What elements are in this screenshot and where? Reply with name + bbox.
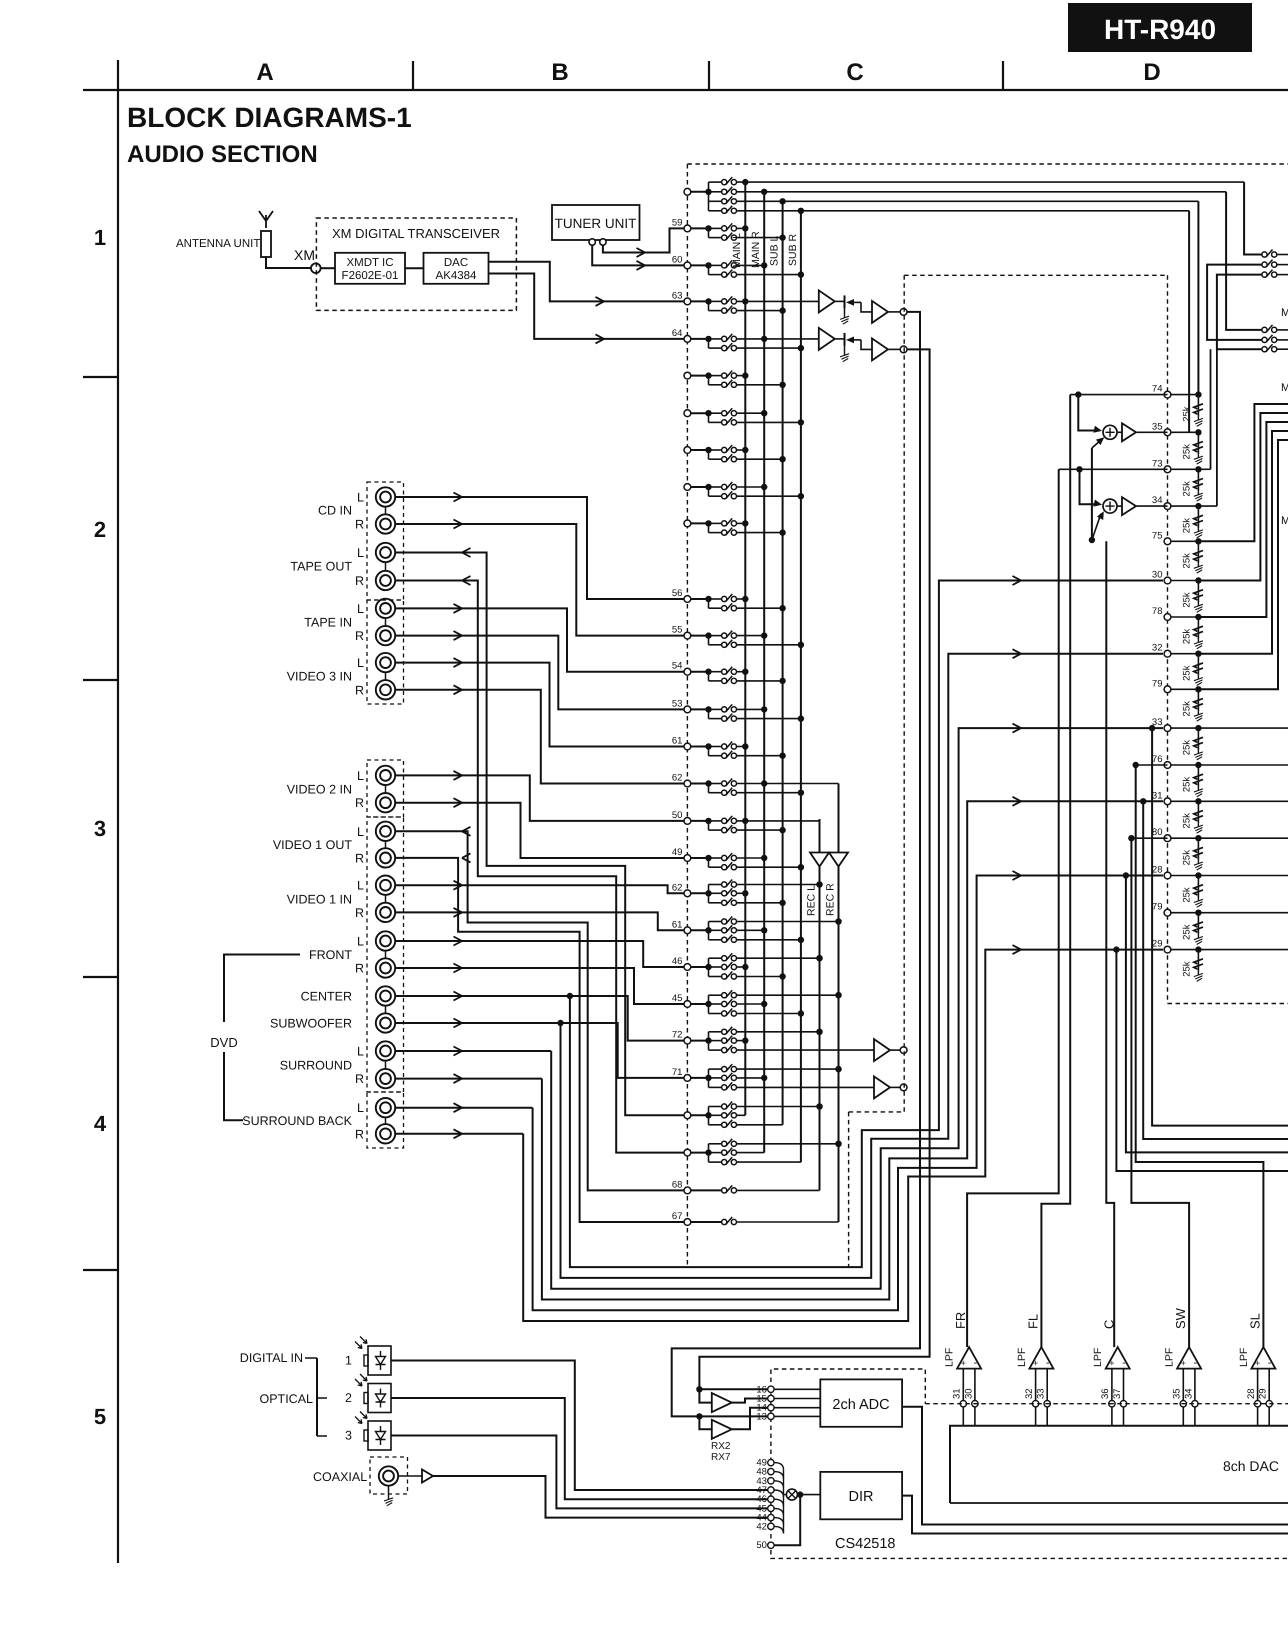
bus MAIN R [763,192,765,1153]
top line3 descent [1197,201,1199,394]
label CENTER [301,990,352,1004]
svg-text:DIGITAL IN: DIGITAL IN [240,1351,303,1365]
svg-text:L: L [357,602,364,616]
summing amp row34 input1 [1080,469,1103,506]
wire groupA row4 to right [737,208,1190,214]
wire optical3 [391,1436,768,1509]
row number 2 [94,517,106,542]
dashed box jacks SURROUND BACK [367,1092,404,1148]
wire TAPE OUT R [395,576,684,1153]
tick row 4/5 [83,1269,118,1271]
label L for jack y=497 [357,491,364,505]
selector row 71 [672,1064,874,1090]
svg-text:31: 31 [1152,790,1163,801]
jack pair link y=608.4 [385,618,387,626]
wire VIDEO3 L [395,658,684,746]
label DIGITAL IN [240,1351,303,1365]
svg-text:DIR: DIR [849,1489,874,1505]
selector row 46 [672,953,823,980]
wire row28 exit [1123,872,1288,1152]
buffer U row 64 [819,328,835,350]
svg-text:C: C [1102,1320,1117,1329]
svg-text:60: 60 [672,254,683,265]
LPF C [1092,1320,1130,1426]
label SUBWOOFER [270,1017,352,1031]
label VIDEO 3 IN [287,670,352,684]
tick row 3/4 [83,976,118,978]
svg-text:A: A [256,59,273,86]
wire SURROUND BACK L [395,1103,533,1112]
ADC pin 13 [756,1411,820,1422]
svg-text:M: M [1281,515,1288,527]
svg-text:+: + [1033,1358,1038,1368]
top line4 descent [1188,211,1190,432]
volume ladder pin 80 y=838 [1152,827,1203,870]
label R for jack y=802.7 [355,796,364,810]
selector row 72 [672,1027,874,1053]
svg-text:71: 71 [672,1067,683,1078]
svg-text:25k: 25k [1181,444,1192,460]
selector row 59 [672,217,786,240]
svg-text:73: 73 [1152,458,1163,469]
svg-text:R: R [355,683,364,697]
selector row 450 [684,445,786,462]
block TUNER UNIT [552,205,640,240]
svg-text:-: - [1046,1357,1050,1369]
DIR mix node [784,1489,821,1500]
DIR pin fan 49-42 [756,1458,783,1534]
svg-text:R: R [355,1127,364,1141]
wire DVD direct 2 [561,649,1164,1278]
svg-text:50: 50 [756,1540,767,1551]
label SURROUND BACK [242,1114,352,1128]
svg-text:L: L [357,1101,364,1115]
label REC L [806,885,818,916]
selector row tapeoutL [684,1102,823,1128]
label MAIN L [731,233,743,268]
selector row tapeoutR [684,1139,842,1165]
RCA jack TAPE OUT at y=552.5 [376,543,395,562]
wire XM node to XMDT [321,267,335,269]
label R for jack y=968 [355,962,364,976]
svg-text:35: 35 [1172,1388,1183,1399]
selector row 61 [672,736,786,759]
dashed box jacks TAPEIN/V3 [367,600,404,704]
svg-text:LPF: LPF [1238,1348,1250,1367]
svg-text:R: R [355,1072,364,1086]
svg-text:COAXIAL: COAXIAL [313,1470,367,1484]
RCA jack SUBWOOFER at y=1023 [376,1013,395,1032]
top line2 descent [1226,192,1262,330]
selector row 50 [672,810,820,833]
row number 5 [94,1404,106,1429]
svg-text:BLOCK DIAGRAMS-1: BLOCK DIAGRAMS-1 [127,102,412,133]
row34 right ext [1198,505,1217,507]
LPF FR [944,1312,982,1426]
wire row74 to FL LPF [1041,395,1070,1348]
label R for jack y=524 [355,518,364,532]
wire TAPE OUT L [395,548,684,1115]
wire groupA row3 to right [737,198,1199,204]
volume ladder pin 28 y=875 [1152,865,1203,908]
svg-text:25k: 25k [1181,518,1192,534]
selector row 63 [672,290,819,313]
volume ladder pin 35 y=432 [1152,421,1203,464]
wire XMDT to DAC [405,267,424,269]
wire g1r2 down to g2r2 [1207,265,1262,340]
svg-text:37: 37 [1112,1388,1123,1399]
wire antenna to XM node [266,257,311,268]
svg-text:DAC: DAC [444,257,468,269]
svg-text:VIDEO 2 IN: VIDEO 2 IN [287,783,352,797]
label L for jack y=831.3 [357,825,364,839]
wire DVD direct 1 [570,576,1163,1267]
svg-text:49: 49 [672,847,683,858]
svg-text:FL: FL [1025,1314,1040,1329]
label SUB R [787,233,799,266]
svg-text:1: 1 [94,225,106,250]
jack pair link y=996 [385,1006,387,1014]
column letter D [1143,59,1160,86]
svg-text:LPF: LPF [1164,1348,1176,1367]
svg-text:M: M [1281,307,1288,319]
ADC pin 14 [756,1403,820,1414]
RCA jack SURROUND BACK at y=1107.7 [376,1098,395,1117]
wire DVD direct 5 [533,871,1163,1310]
label R for jack y=580.5 [355,574,364,588]
label MAIN R [750,231,762,268]
svg-text:56: 56 [672,588,683,599]
row74 inner wire [1070,391,1167,397]
wire DVD direct 4 [542,797,1163,1300]
coax dashed box [370,1457,408,1494]
selector row 56 [672,588,786,611]
svg-text:80: 80 [1152,827,1163,838]
antenna resistor [261,231,271,257]
svg-text:36: 36 [1100,1388,1111,1399]
svg-text:25k: 25k [1181,850,1192,866]
svg-text:XM: XM [294,247,315,263]
selector row 61b [672,917,842,944]
selector right dashed edge [848,1112,850,1267]
volume ladder pin 34 y=506 [1152,495,1203,538]
ADC pin 15 [756,1394,820,1405]
selector row 45 [672,990,842,1017]
coax jack [379,1466,398,1506]
svg-text:25k: 25k [1181,665,1192,681]
label CS42518 [835,1536,895,1552]
label L for jack y=885.2 [357,879,364,893]
svg-text:1: 1 [345,1354,352,1368]
label OPTICAL [260,1392,314,1406]
svg-text:50: 50 [672,810,683,821]
label SURROUND [280,1059,352,1073]
svg-text:SW: SW [1173,1307,1188,1329]
row number 3 [94,816,106,841]
main signal vertical R [696,349,929,1392]
svg-text:-: - [1268,1357,1272,1369]
LPF SW [1164,1307,1202,1425]
volume ladder pin 79 y=912 [1152,902,1203,945]
optical jack 3 [345,1412,391,1451]
jack pair link y=497 [385,507,387,515]
tuner out pin L [589,239,595,245]
svg-text:68: 68 [672,1179,683,1190]
svg-text:VIDEO 1 OUT: VIDEO 1 OUT [273,838,353,852]
label L for jack y=775.4 [357,769,364,783]
svg-text:34: 34 [1152,495,1163,506]
dashed link selector-volume [849,1111,905,1113]
right switch group2 row2 [1262,335,1288,343]
svg-text:R: R [355,574,364,588]
jack pair link y=941 [385,951,387,959]
label R for jack y=635.6 [355,629,364,643]
svg-text:-: - [1122,1357,1126,1369]
svg-text:55: 55 [672,625,683,636]
jack pair link y=831.3 [385,841,387,849]
wire row73 to FR LPF [967,469,1059,1347]
svg-text:CENTER: CENTER [301,990,352,1004]
bus SUB L [782,201,784,1125]
label VIDEO 2 IN [287,783,352,797]
svg-text:28: 28 [1246,1388,1257,1399]
wire SURROUND L [395,1047,551,1056]
svg-text:MAIN R: MAIN R [750,231,762,268]
jack pair link y=775.4 [385,785,387,793]
wire DAC out L to row63 [489,262,685,306]
svg-text:45: 45 [672,993,683,1004]
label DVD [210,1035,237,1050]
svg-text:25k: 25k [1181,592,1192,608]
RCA jack VIDEO 3 IN at y=662.6 [376,653,395,672]
volume ladder pin 76 y=765 [1152,754,1203,797]
svg-text:M: M [1281,382,1288,394]
ladder row ext y=912 [1198,912,1288,914]
2ch ADC box [820,1379,902,1426]
wire VIDEO3 R [395,685,684,783]
svg-text:LPF: LPF [1016,1348,1028,1367]
right switch group1 row3 [1262,270,1288,278]
RCA jack R at y=524 [376,514,395,533]
svg-text:2: 2 [94,517,106,542]
label L for jack y=552.5 [357,546,364,560]
wire row29 exit [1113,946,1288,1171]
svg-text:B: B [551,59,568,86]
label 8ch DAC [1223,1458,1279,1474]
RCA jack CD IN at y=497 [376,487,395,506]
dashed box jacks V2 [367,760,404,817]
wire VIDEO1 OUT R [395,853,684,1222]
svg-text:3: 3 [345,1429,352,1443]
col tick A/B [412,61,414,90]
svg-text:CD IN: CD IN [318,504,352,518]
label RX2 RX7 [711,1441,731,1463]
svg-text:25k: 25k [1181,553,1192,569]
RCA jack R at y=857.9 [376,848,395,867]
svg-text:67: 67 [672,1211,683,1222]
svg-text:31: 31 [952,1388,963,1399]
optical jack 2 [345,1374,391,1413]
REC R buffer [829,853,848,867]
wire CD R [395,520,684,636]
buffer U row 63 [819,290,835,312]
selector row 53 [672,698,804,721]
svg-text:29: 29 [1258,1388,1269,1399]
svg-text:64: 64 [672,328,683,339]
svg-text:SURROUND BACK: SURROUND BACK [242,1114,352,1128]
svg-text:2: 2 [345,1391,352,1405]
svg-text:13: 13 [756,1411,767,1422]
svg-text:REC R: REC R [825,883,837,916]
summing amp row35 input1 [1078,395,1102,433]
RCA jack VIDEO 1 IN at y=885.2 [376,876,395,895]
buffer U2 row 63 [861,301,888,323]
bus SUB R [800,211,802,1162]
ladder row78 exit [1198,422,1288,617]
dashed box XM DIGITAL TRANSCEIVER [316,218,516,310]
wire row31 exit SBR [1140,798,1288,1139]
svg-text:MAIN L: MAIN L [731,233,743,268]
svg-text:L: L [357,879,364,893]
RCA jack R at y=912.4 [376,903,395,922]
svg-text:29: 29 [1152,939,1163,950]
label R for jack y=912.4 [355,906,364,920]
svg-text:74: 74 [1152,384,1163,395]
wire buffer row 64 to volume box [888,348,900,350]
wire row76 to SL LPF [1133,762,1264,1347]
row number 1 [94,225,106,250]
wire optical1 [391,1361,768,1491]
wire FRONT R [395,964,684,1005]
svg-text:L: L [357,1045,364,1059]
svg-text:54: 54 [672,661,683,672]
svg-text:HT-R940: HT-R940 [1104,14,1216,45]
wire row33 exit SBL [1149,725,1288,1126]
label ANTENNA UNIT [176,238,260,250]
selector row 60 [672,254,804,277]
svg-text:46: 46 [672,956,683,967]
wire VIDEO1 IN L [395,881,684,894]
svg-text:3: 3 [94,816,106,841]
ladder row ext y=875 [1198,875,1288,877]
volume ladder pin 30 y=580 [1152,570,1203,613]
wire buffer row 63 to volume box [888,311,900,313]
RCA jack R at y=802.7 [376,793,395,812]
svg-text:R: R [355,796,364,810]
row number 4 [94,1111,107,1136]
ladder row32 exit [1198,431,1288,654]
wire tuner R to row59 [603,228,684,257]
border vertical line [117,60,119,1563]
svg-text:TAPE OUT: TAPE OUT [290,560,352,574]
cropped label mark 2 [1281,382,1288,394]
label L for jack y=662.6 [357,656,364,670]
label REC R [825,883,837,916]
wire CD L [395,493,684,600]
svg-text:25k: 25k [1181,406,1192,422]
top line1 descent [1244,182,1262,254]
svg-text:35: 35 [1152,421,1163,432]
8ch DAC box [950,1426,1288,1503]
monitor buffer SURR R [874,1076,900,1098]
selector row 49 [672,847,804,870]
svg-text:62: 62 [672,882,683,893]
svg-text:30: 30 [963,1388,974,1399]
RCA jack FRONT at y=941 [376,931,395,950]
tick row 2/3 [83,679,118,681]
volume left dashed edge [903,275,905,1112]
svg-text:+: + [1181,1358,1186,1368]
volume ladder pin 73 y=469 [1152,458,1203,501]
selector row groupA (4 switches) [684,177,737,213]
IC XMDT F2602E-01 [335,253,405,284]
optical jack 1 [345,1337,391,1376]
svg-text:R: R [355,518,364,532]
label L for jack y=608.4 [357,602,364,616]
volume ladder pin 79 y=689 [1152,678,1203,721]
label COAXIAL [313,1470,367,1484]
ADC output wire [902,1407,1288,1525]
RCA jack R at y=968 [376,958,395,977]
svg-text:+: + [1109,1358,1114,1368]
right switch group1 row2 [1262,260,1288,268]
volume input node SURR R [900,1084,907,1091]
coax buffer [398,1470,433,1483]
label CD IN [318,504,352,518]
svg-text:78: 78 [1152,606,1163,617]
svg-text:LPF: LPF [1092,1348,1104,1367]
main signal vertical L [672,312,920,1420]
svg-text:L: L [357,546,364,560]
label R for jack y=857.9 [355,851,364,865]
label TAPE IN [304,616,352,630]
column letter C [846,59,863,86]
volume right dashed edge [1167,275,1169,1003]
REC L vertical [816,819,822,1190]
mute stage row 63 [835,295,861,324]
svg-text:25k: 25k [1181,813,1192,829]
RCA jack R at y=689.8 [376,680,395,699]
svg-text:L: L [357,825,364,839]
svg-text:FRONT: FRONT [309,948,352,962]
wire g1r3 down to g2r3 [1217,275,1262,350]
tuner out pin R [600,239,606,245]
svg-text:D: D [1143,59,1160,86]
svg-text:SL: SL [1247,1313,1262,1329]
svg-text:61: 61 [672,919,683,930]
antenna symbol [259,211,273,228]
svg-text:AK4384: AK4384 [436,270,478,282]
svg-text:SUBWOOFER: SUBWOOFER [270,1017,352,1031]
volume ladder pin 33 y=728 [1152,717,1203,760]
col tick B/C [708,61,710,90]
svg-text:63: 63 [672,290,683,301]
LPF FL [1016,1314,1054,1426]
wire SURROUND R [395,1074,542,1083]
jack pair link y=885.2 [385,895,387,903]
svg-text:XM DIGITAL TRANSCEIVER: XM DIGITAL TRANSCEIVER [332,226,500,241]
summing amp row35 [1103,423,1168,441]
wire groupA row1 to right [737,179,1245,185]
svg-text:L: L [357,656,364,670]
REC R vertical [835,784,841,1223]
jack pair link y=1051 [385,1061,387,1070]
svg-text:33: 33 [1036,1388,1047,1399]
svg-text:32: 32 [1024,1388,1035,1399]
label TAPE OUT [290,560,352,574]
selector top dashed edge [687,163,1288,165]
label L for jack y=1051 [357,1045,364,1059]
